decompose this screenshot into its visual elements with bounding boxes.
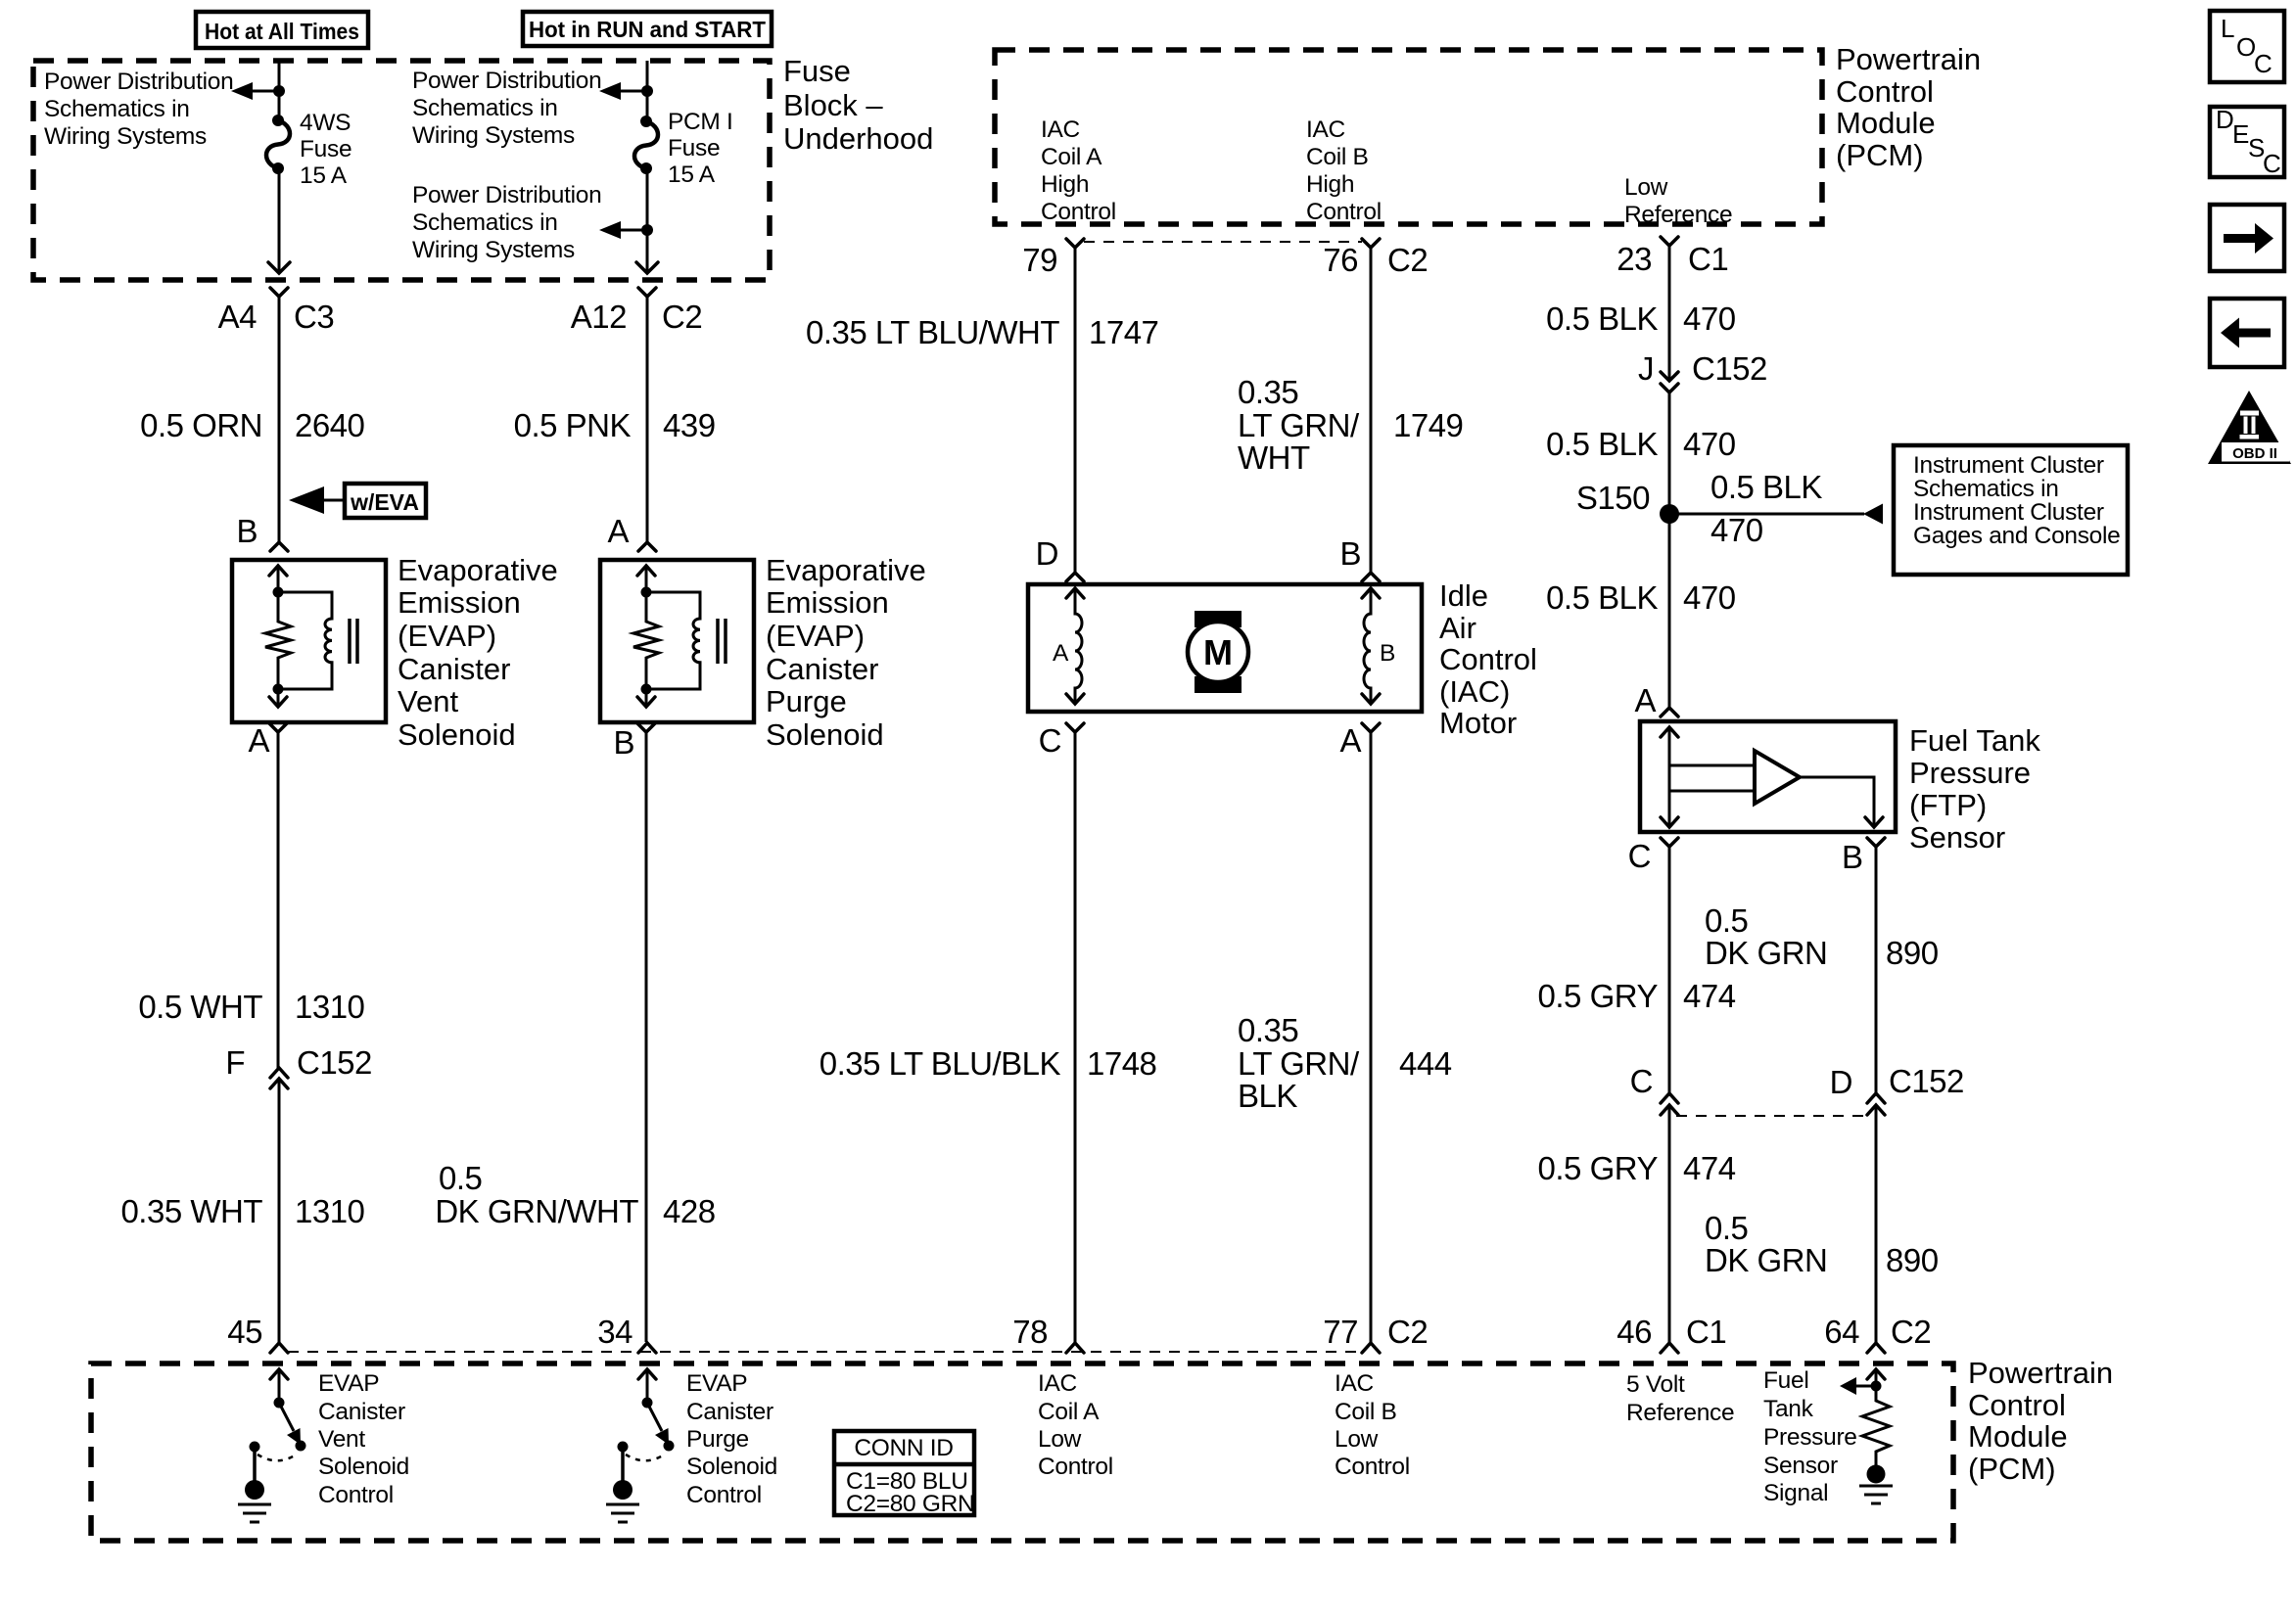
svg-text:PCM I: PCM I <box>668 109 733 135</box>
wire 0.5 WHT 1310 <box>138 732 364 1068</box>
pin label Low Reference <box>1624 174 1732 228</box>
svg-text:4WS: 4WS <box>300 110 351 136</box>
node col2 tap1 <box>641 85 653 97</box>
connector pin 77 C2 <box>1323 1314 1428 1353</box>
connector pin 34 <box>597 1314 656 1353</box>
svg-text:D: D <box>1036 535 1058 572</box>
vent solenoid node bottom <box>273 684 284 695</box>
svg-text:IAC: IAC <box>1335 1370 1374 1397</box>
svg-text:A: A <box>1339 722 1361 759</box>
note Power Distribution right-2 <box>412 182 601 263</box>
svg-text:D: D <box>1830 1064 1852 1100</box>
svg-text:Hot in RUN and START: Hot in RUN and START <box>529 17 766 42</box>
svg-text:Evaporative: Evaporative <box>766 553 926 587</box>
svg-text:Canister: Canister <box>398 652 510 686</box>
svg-text:Block –: Block – <box>783 88 883 122</box>
svg-text:C: C <box>1039 722 1061 759</box>
svg-text:Coil A: Coil A <box>1038 1399 1100 1425</box>
svg-text:Instrument Cluster: Instrument Cluster <box>1913 452 2104 479</box>
wire 0.5 BLK 470 segment2 <box>1546 393 1736 514</box>
connector C2 dashed joint 45-77 <box>288 1351 1362 1353</box>
svg-text:C152: C152 <box>297 1044 372 1081</box>
pin label IAC Coil B High Control <box>1306 116 1382 225</box>
note Power Distribution right-1 <box>412 68 601 149</box>
svg-text:Tank: Tank <box>1763 1396 1814 1422</box>
vent solenoid driver switch <box>250 1398 306 1461</box>
connector pin B vent solenoid <box>236 513 288 551</box>
svg-text:A: A <box>1634 682 1656 718</box>
svg-text:428: 428 <box>663 1193 716 1229</box>
svg-text:Motor: Motor <box>1439 706 1517 740</box>
wire col1 below fuse <box>278 168 281 272</box>
fuse PCM I 15A <box>634 109 733 188</box>
svg-text:IAC: IAC <box>1306 116 1345 143</box>
IAC coil B <box>1362 588 1395 704</box>
svg-text:Pressure: Pressure <box>1909 756 2031 790</box>
svg-text:A4: A4 <box>218 299 258 335</box>
svg-text:C: C <box>2263 149 2281 178</box>
svg-text:Sensor: Sensor <box>1909 820 2005 855</box>
note box Instrument Cluster Schematics <box>1894 445 2128 575</box>
svg-text:Schematics in: Schematics in <box>44 96 190 122</box>
fuse 4WS 15A <box>266 110 351 189</box>
svg-text:0.35 LT BLU/WHT: 0.35 LT BLU/WHT <box>806 314 1059 350</box>
svg-text:F: F <box>225 1044 245 1081</box>
svg-text:High: High <box>1306 171 1354 198</box>
svg-text:BLK: BLK <box>1238 1078 1297 1114</box>
svg-text:0.35: 0.35 <box>1238 374 1298 410</box>
FTP signal branch arrow left <box>1840 1377 1876 1395</box>
icon DESC box <box>2210 105 2284 178</box>
wire col1 feed <box>278 61 281 117</box>
svg-text:Schematics in: Schematics in <box>412 209 558 236</box>
svg-text:Fuel: Fuel <box>1763 1367 1808 1394</box>
svg-text:C: C <box>1628 838 1651 874</box>
svg-text:45: 45 <box>227 1314 262 1350</box>
svg-text:Instrument Cluster: Instrument Cluster <box>1913 499 2104 526</box>
label Fuse Block - Underhood <box>783 54 933 156</box>
svg-text:23: 23 <box>1617 241 1652 277</box>
FTP signal pulldown resistor <box>1862 1386 1890 1465</box>
fuse block underhood dashed box <box>33 61 770 280</box>
svg-text:C2: C2 <box>1387 1314 1428 1350</box>
svg-text:B: B <box>1842 839 1863 875</box>
svg-text:B: B <box>1339 535 1361 572</box>
svg-text:Gages and Console: Gages and Console <box>1913 523 2120 549</box>
purge solenoid node top <box>641 587 652 598</box>
connector pin A purge solenoid <box>607 513 656 551</box>
svg-text:0.35: 0.35 <box>1238 1012 1298 1048</box>
svg-text:0.5 BLK: 0.5 BLK <box>1546 426 1658 462</box>
IAC motor box <box>1028 584 1422 712</box>
svg-text:(EVAP): (EVAP) <box>766 619 865 653</box>
connector pin A FTP sensor <box>1634 682 1678 718</box>
svg-text:Reference: Reference <box>1626 1400 1734 1426</box>
connector pin 23 C1 <box>1617 237 1728 277</box>
svg-text:Module: Module <box>1968 1419 2068 1454</box>
wire 0.35 LT BLU/WHT 1747 <box>806 248 1158 573</box>
svg-text:A: A <box>1053 640 1069 667</box>
purge solenoid driver switch <box>618 1398 675 1461</box>
svg-text:DK GRN: DK GRN <box>1705 1242 1827 1278</box>
connector pin 45 <box>227 1314 288 1353</box>
connector pin D IAC motor <box>1036 535 1084 581</box>
svg-text:470: 470 <box>1683 579 1736 616</box>
purge solenoid node bottom <box>641 684 652 695</box>
svg-text:B: B <box>613 724 634 761</box>
svg-text:64: 64 <box>1824 1314 1859 1350</box>
svg-text:C2: C2 <box>1891 1314 1931 1350</box>
svg-text:1310: 1310 <box>295 989 365 1025</box>
svg-text:J: J <box>1638 350 1654 387</box>
label Powertrain Control Module (PCM) top <box>1836 42 1981 172</box>
IAC coil A <box>1053 588 1084 704</box>
note Power Distribution left <box>44 69 233 150</box>
svg-text:470: 470 <box>1683 426 1736 462</box>
connector pin C FTP sensor <box>1628 838 1678 874</box>
svg-text:Idle: Idle <box>1439 578 1488 613</box>
svg-text:444: 444 <box>1399 1045 1452 1082</box>
svg-text:1749: 1749 <box>1393 407 1463 443</box>
svg-text:1747: 1747 <box>1089 314 1158 350</box>
wire 0.35 LT BLU/BLK 1748 <box>820 732 1157 1342</box>
svg-text:Control: Control <box>318 1482 394 1508</box>
wire col2 feed <box>646 61 649 117</box>
svg-text:B: B <box>1380 640 1395 667</box>
svg-text:1748: 1748 <box>1087 1045 1156 1082</box>
FTP internal supply line with arrows <box>1661 727 1678 827</box>
label 5 Volt Reference <box>1626 1371 1734 1426</box>
svg-text:OBD II: OBD II <box>2232 445 2277 462</box>
svg-text:439: 439 <box>663 407 716 443</box>
svg-text:Coil B: Coil B <box>1335 1399 1397 1425</box>
svg-text:C152: C152 <box>1889 1063 1964 1099</box>
connector pin 78 <box>1012 1314 1084 1353</box>
arrow to power distribution right-1 <box>599 82 647 100</box>
splice S150 <box>1576 480 1679 524</box>
svg-text:Schematics in: Schematics in <box>1913 476 2059 502</box>
svg-text:(FTP): (FTP) <box>1909 788 1987 822</box>
svg-text:Fuel Tank: Fuel Tank <box>1909 723 2040 758</box>
svg-text:w/EVA: w/EVA <box>350 489 419 515</box>
svg-text:C152: C152 <box>1692 350 1767 387</box>
connector pin 79 <box>1022 239 1084 278</box>
connector C2 dashed joint 79-76 <box>1084 241 1362 243</box>
svg-text:C3: C3 <box>294 299 334 335</box>
wire 0.5 BLK 470 segment1 <box>1546 246 1736 381</box>
svg-text:77: 77 <box>1323 1314 1358 1350</box>
svg-text:Power Distribution: Power Distribution <box>412 68 601 94</box>
wire 0.35 WHT 1310 <box>120 1079 364 1342</box>
label box Hot in RUN and START <box>523 12 772 46</box>
svg-text:CONN ID: CONN ID <box>854 1435 953 1461</box>
svg-text:Powertrain: Powertrain <box>1968 1356 2113 1390</box>
arrow to power distribution right-2 <box>599 221 647 239</box>
svg-text:0.35 LT BLU/BLK: 0.35 LT BLU/BLK <box>820 1045 1061 1082</box>
svg-text:Vent: Vent <box>398 684 458 718</box>
svg-text:(PCM): (PCM) <box>1968 1452 2056 1486</box>
pin label IAC Coil A High Control <box>1041 116 1116 225</box>
svg-text:Canister: Canister <box>686 1399 773 1425</box>
svg-text:474: 474 <box>1683 1150 1736 1186</box>
icon OBD II triangle <box>2208 391 2291 464</box>
svg-text:Power Distribution: Power Distribution <box>412 182 601 208</box>
svg-text:0.5: 0.5 <box>1705 1210 1748 1246</box>
svg-text:Control: Control <box>1335 1454 1410 1480</box>
svg-text:Control: Control <box>1968 1388 2066 1422</box>
svg-text:(EVAP): (EVAP) <box>398 619 496 653</box>
purge solenoid coil branch <box>646 592 726 689</box>
wire 0.5 BLK 470 segment3 <box>1546 514 1736 708</box>
svg-text:A12: A12 <box>571 299 627 335</box>
connector pin A IAC motor <box>1339 722 1380 759</box>
PCM bottom dashed box <box>91 1363 1953 1541</box>
svg-text:76: 76 <box>1323 242 1358 278</box>
svg-text:Emission: Emission <box>398 585 521 620</box>
label IAC Coil A Low Control <box>1038 1370 1113 1480</box>
purge solenoid internal arrow down <box>637 689 655 707</box>
svg-text:Control: Control <box>1038 1454 1113 1480</box>
connector pin A vent solenoid <box>248 722 287 759</box>
svg-text:Module: Module <box>1836 106 1936 140</box>
wire 0.5 DK GRN 890 segment2 <box>1705 1105 1939 1342</box>
svg-text:High: High <box>1041 171 1089 198</box>
svg-text:Sensor: Sensor <box>1763 1453 1838 1479</box>
svg-text:1310: 1310 <box>295 1193 365 1229</box>
svg-text:DK GRN/WHT: DK GRN/WHT <box>435 1193 638 1229</box>
svg-text:Control: Control <box>686 1482 762 1508</box>
vent solenoid node top <box>273 587 284 598</box>
svg-text:Schematics in: Schematics in <box>412 95 558 121</box>
connector pin B purge solenoid <box>613 723 655 761</box>
wire 0.5 BLK 470 branch to instrument cluster <box>1669 469 1883 548</box>
svg-text:Control: Control <box>1306 199 1382 225</box>
wire 0.5 DK GRN 890 segment1 <box>1705 847 1939 1093</box>
purge solenoid driver ground <box>606 1449 639 1522</box>
svg-text:(IAC): (IAC) <box>1439 674 1510 709</box>
wire 0.5 DK GRN/WHT 428 <box>435 732 715 1342</box>
vent solenoid driver arrow up <box>270 1369 288 1402</box>
svg-text:0.35 WHT: 0.35 WHT <box>120 1193 262 1229</box>
svg-text:Coil B: Coil B <box>1306 144 1369 170</box>
connector pin A4 C3 <box>218 288 335 335</box>
svg-text:Evaporative: Evaporative <box>398 553 558 587</box>
svg-text:Wiring Systems: Wiring Systems <box>412 122 575 149</box>
connector pin C IAC motor <box>1039 722 1084 759</box>
svg-text:0.5: 0.5 <box>439 1160 482 1196</box>
EVAP canister purge solenoid box <box>600 560 754 722</box>
motor M symbol <box>1188 611 1248 693</box>
svg-text:C2=80 GRN: C2=80 GRN <box>846 1491 974 1517</box>
svg-text:Fuse: Fuse <box>300 136 351 162</box>
wire 0.5 ORN 2640 <box>140 297 364 541</box>
svg-text:B: B <box>236 513 258 549</box>
svg-text:Low: Low <box>1335 1426 1379 1453</box>
svg-text:Hot at All Times: Hot at All Times <box>205 19 359 44</box>
svg-text:Control: Control <box>1836 74 1934 109</box>
svg-text:Low: Low <box>1624 174 1668 201</box>
svg-text:Fuse: Fuse <box>783 54 851 88</box>
wire 0.5 PNK 439 <box>514 297 716 541</box>
svg-text:IAC: IAC <box>1041 116 1080 143</box>
svg-text:Pressure: Pressure <box>1763 1424 1857 1451</box>
svg-text:34: 34 <box>597 1314 633 1350</box>
svg-text:15 A: 15 A <box>668 162 716 188</box>
svg-text:0.5 BLK: 0.5 BLK <box>1546 300 1658 337</box>
FTP internal output with arrow <box>1800 777 1883 827</box>
svg-text:EVAP: EVAP <box>686 1370 747 1397</box>
svg-text:79: 79 <box>1022 242 1057 278</box>
connector pin B FTP sensor <box>1842 838 1885 875</box>
svg-text:0.5 PNK: 0.5 PNK <box>514 407 632 443</box>
svg-text:0.5 GRY: 0.5 GRY <box>1538 1150 1659 1186</box>
svg-text:Underhood: Underhood <box>783 121 933 156</box>
node col2 tap2 <box>641 224 653 236</box>
vent solenoid driver ground <box>238 1449 271 1522</box>
svg-text:Reference: Reference <box>1624 202 1732 228</box>
svg-text:D: D <box>2216 105 2234 134</box>
label IAC Coil B Low Control <box>1335 1370 1410 1480</box>
vent solenoid internal arrow up <box>269 566 287 592</box>
svg-text:WHT: WHT <box>1238 439 1310 476</box>
wire 0.5 GRY 474 segment2 <box>1538 1105 1736 1342</box>
connector F C152 inline <box>225 1044 372 1088</box>
svg-text:Purge: Purge <box>766 684 847 718</box>
svg-text:Control: Control <box>1439 642 1537 676</box>
label EVAP Canister Purge Solenoid Control <box>686 1370 777 1508</box>
connector pin B IAC motor <box>1339 535 1380 581</box>
vent solenoid internal arrow down <box>269 689 287 707</box>
svg-text:Solenoid: Solenoid <box>398 717 516 752</box>
svg-text:C1: C1 <box>1686 1314 1726 1350</box>
svg-text:Canister: Canister <box>766 652 878 686</box>
svg-text:78: 78 <box>1012 1314 1048 1350</box>
svg-text:DK GRN: DK GRN <box>1705 935 1827 971</box>
wire 0.5 GRY 474 segment1 <box>1538 847 1736 1093</box>
PCM top dashed box <box>995 50 1822 224</box>
svg-text:A: A <box>248 722 269 759</box>
connector C152 dashed joint C-D <box>1676 1115 1863 1117</box>
svg-text:0.5: 0.5 <box>1705 902 1748 939</box>
svg-text:Powertrain: Powertrain <box>1836 42 1981 76</box>
connector pin 46 C1 <box>1617 1314 1726 1353</box>
arrow to power distribution left <box>231 82 279 100</box>
FTP signal input arrow up <box>1867 1369 1885 1386</box>
svg-text:Solenoid: Solenoid <box>318 1454 409 1480</box>
icon LOC box <box>2210 11 2284 82</box>
label Fuel Tank Pressure Sensor Signal <box>1763 1367 1857 1506</box>
svg-text:0.5 BLK: 0.5 BLK <box>1546 579 1658 616</box>
connector D C152 inline <box>1830 1063 1964 1115</box>
svg-text:Solenoid: Solenoid <box>686 1454 777 1480</box>
svg-text:15 A: 15 A <box>300 162 348 189</box>
svg-text:L: L <box>2221 14 2234 43</box>
svg-text:LT GRN/: LT GRN/ <box>1238 1045 1360 1082</box>
svg-text:474: 474 <box>1683 978 1736 1014</box>
svg-text:Emission: Emission <box>766 585 889 620</box>
EVAP canister vent solenoid box <box>232 560 386 722</box>
svg-text:M: M <box>1203 632 1233 672</box>
svg-text:C2: C2 <box>1387 242 1428 278</box>
svg-text:0.5 WHT: 0.5 WHT <box>138 989 262 1025</box>
label Evaporative Emission (EVAP) Canister Vent Solenoid <box>398 553 558 752</box>
svg-text:C1: C1 <box>1688 241 1728 277</box>
connector C C152 inline <box>1630 1063 1678 1115</box>
svg-text:LT GRN/: LT GRN/ <box>1238 407 1360 443</box>
svg-text:Vent: Vent <box>318 1426 365 1453</box>
arrow down at fuse box exit col1 <box>268 262 290 273</box>
svg-text:A: A <box>607 513 629 549</box>
FTP internal amplifier <box>1669 751 1800 804</box>
svg-text:890: 890 <box>1886 1242 1939 1278</box>
label box w/EVA with arrow <box>289 484 426 518</box>
svg-text:C2: C2 <box>662 299 702 335</box>
node col1 tap <box>273 85 285 97</box>
FTP signal ground <box>1859 1465 1893 1504</box>
svg-text:Low: Low <box>1038 1426 1082 1453</box>
wire 0.35 LT GRN/WHT 1749 <box>1238 248 1463 573</box>
svg-text:470: 470 <box>1683 300 1736 337</box>
connector pin 76 C2 <box>1323 239 1428 278</box>
svg-text:Control: Control <box>1041 199 1116 225</box>
label EVAP Canister Vent Solenoid Control <box>318 1370 409 1508</box>
svg-text:0.5 BLK: 0.5 BLK <box>1710 469 1822 505</box>
purge solenoid driver arrow up <box>638 1369 656 1402</box>
svg-text:Air: Air <box>1439 611 1476 645</box>
label Fuel Tank Pressure (FTP) Sensor <box>1909 723 2040 855</box>
svg-text:470: 470 <box>1710 512 1763 548</box>
label Powertrain Control Module (PCM) bottom <box>1968 1356 2113 1486</box>
CONN ID table <box>834 1431 974 1517</box>
svg-text:890: 890 <box>1886 935 1939 971</box>
connector pin A12 C2 <box>571 288 702 335</box>
svg-text:Power Distribution: Power Distribution <box>44 69 233 95</box>
label Evaporative Emission (EVAP) Canister Purge Solenoid <box>766 553 926 752</box>
svg-text:Wiring Systems: Wiring Systems <box>44 123 207 150</box>
svg-text:2640: 2640 <box>295 407 365 443</box>
svg-text:Purge: Purge <box>686 1426 749 1453</box>
svg-text:Canister: Canister <box>318 1399 405 1425</box>
vent solenoid resistor <box>265 592 291 689</box>
svg-text:Fuse: Fuse <box>668 135 720 162</box>
svg-text:C: C <box>1630 1063 1653 1099</box>
vent solenoid coil branch <box>278 592 357 689</box>
icon left-arrow box <box>2210 299 2284 367</box>
svg-text:S150: S150 <box>1576 480 1650 516</box>
svg-text:5 Volt: 5 Volt <box>1626 1371 1685 1398</box>
svg-text:E: E <box>2232 119 2249 149</box>
icon right-arrow box <box>2210 205 2284 271</box>
wire col2 below fuse <box>646 168 649 272</box>
fuel tank pressure sensor box <box>1640 721 1896 832</box>
label Idle Air Control (IAC) Motor <box>1439 578 1537 740</box>
label box Hot at All Times <box>196 12 368 48</box>
svg-text:C: C <box>2254 49 2273 78</box>
svg-text:(PCM): (PCM) <box>1836 138 1924 172</box>
FTP signal node <box>1871 1381 1882 1392</box>
connector J C152 inline <box>1638 350 1767 393</box>
svg-text:Wiring Systems: Wiring Systems <box>412 237 575 263</box>
svg-text:46: 46 <box>1617 1314 1652 1350</box>
wire 0.35 LT GRN/BLK 444 <box>1238 732 1452 1342</box>
svg-text:Solenoid: Solenoid <box>766 717 884 752</box>
purge solenoid resistor <box>633 592 659 689</box>
purge solenoid internal arrow up <box>637 566 655 592</box>
svg-text:IAC: IAC <box>1038 1370 1077 1397</box>
svg-text:0.5 GRY: 0.5 GRY <box>1538 978 1659 1014</box>
svg-text:Coil A: Coil A <box>1041 144 1102 170</box>
svg-text:EVAP: EVAP <box>318 1370 379 1397</box>
